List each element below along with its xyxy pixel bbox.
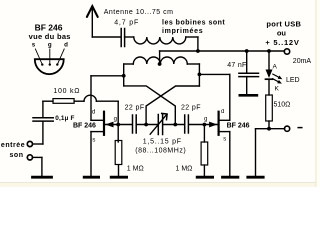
inductor L1 antenna coupling coil (printed) (134, 37, 186, 44)
wire tank top left stub (124, 63, 134, 65)
minus sign label (298, 127, 302, 129)
wire C1 to antenna coil L1 (125, 36, 134, 38)
ground C5 (240, 94, 257, 97)
wire cross-coupling tank left to Q2 gate side (124, 86, 176, 125)
capacitor C4 0,1 uF (33, 118, 53, 121)
svg-text:47 nF: 47 nF (227, 62, 246, 69)
node C5 junction on rail (245, 49, 249, 53)
svg-text:K: K (275, 85, 280, 92)
svg-text:vue du bas: vue du bas (29, 32, 71, 41)
wire rail to C5 (246, 51, 248, 73)
ground R3 (197, 176, 212, 179)
svg-text:100 kΩ: 100 kΩ (53, 88, 80, 95)
wire L2 center tap to rail (159, 51, 161, 64)
svg-text:s: s (32, 41, 36, 48)
BF246 package pin dot d (56, 63, 58, 65)
resistor R4 510 Ohm (266, 95, 273, 121)
capacitor C3 22 pF (185, 115, 189, 133)
transistor Q2 BF246 (209, 112, 230, 135)
LED D1 (266, 70, 273, 80)
node LED junction on rail (267, 49, 271, 53)
ground son (33, 176, 52, 179)
wire cross-coupling tank right to Q1 gate side (146, 86, 199, 125)
resistor R2 1 MOhm (115, 141, 122, 165)
svg-text:0,1µ F: 0,1µ F (55, 115, 74, 122)
svg-text:20mA: 20mA (293, 58, 312, 65)
svg-text:22 pF: 22 pF (125, 104, 145, 111)
wire C2 to CV1 (137, 124, 158, 126)
svg-text:g: g (48, 41, 52, 48)
capacitor C1 4,7 pF (121, 29, 124, 47)
svg-text:ou: ou (277, 28, 287, 37)
svg-text:g: g (204, 117, 207, 123)
svg-text:BF 246: BF 246 (227, 123, 250, 130)
wire son terminal right (33, 156, 42, 158)
svg-text:Antenne 10...75 cm: Antenne 10...75 cm (104, 9, 174, 16)
wire Q1 source vertical (90, 132, 92, 176)
wire Q2 source vertical (229, 132, 231, 176)
svg-text:1 MΩ: 1 MΩ (127, 165, 144, 172)
wire R2 to ground (118, 165, 120, 176)
inductor L2 tank coil (printed) (133, 57, 187, 64)
svg-text:d: d (92, 110, 95, 116)
BF246 package pin leader lines s g d (35, 49, 64, 65)
resistor R1 100 kOhm (53, 99, 74, 104)
svg-text:A: A (273, 63, 278, 70)
wire C5 to ground (246, 77, 248, 94)
node Q1 drain / tank left (122, 74, 126, 78)
wire corner down to supply rail (197, 37, 199, 51)
svg-text:BF 246: BF 246 (73, 123, 96, 130)
terminal son (audio return) (27, 155, 32, 160)
svg-text:(88...108MHz): (88...108MHz) (135, 148, 186, 155)
BF246 package outline bottom view (35, 59, 64, 74)
wire C4 to R1 corner (42, 101, 44, 118)
wire minus node left (256, 128, 270, 130)
svg-text:g: g (114, 117, 117, 123)
node minus junction (267, 127, 271, 131)
svg-text:d: d (221, 109, 224, 115)
wire rail to LED anode (268, 51, 270, 70)
wire tank top right stub (187, 63, 199, 65)
svg-text:22 pF: 22 pF (181, 104, 201, 111)
transistor Q1 BF246 (91, 112, 114, 135)
resistor R3 1 MOhm (201, 142, 208, 165)
svg-text:imprimées: imprimées (162, 28, 203, 35)
svg-text:d: d (64, 41, 68, 48)
wire CV1 to C3 (163, 124, 184, 126)
node CV1 left (144, 123, 148, 127)
wire Q2 drain to tank right (199, 73, 229, 75)
wire down to Q1 gate node (117, 101, 119, 124)
terminal entree (audio input) (27, 141, 32, 146)
ground R2 (111, 176, 126, 179)
wire hop over Q1 drain line (84, 95, 96, 101)
BF246 package pin dot s (41, 63, 43, 65)
wire R3 to ground (203, 165, 205, 176)
LED D1 emission arrows (273, 74, 283, 84)
node antenna feed junction on rail (196, 49, 200, 53)
ground Q1 source (84, 176, 98, 179)
terminal plus supply (port USB / +5..12V) (284, 49, 289, 54)
svg-text:510Ω: 510Ω (274, 102, 291, 109)
variable capacitor CV1 1,5..15 pF (158, 115, 162, 135)
wire Q2 gate node to R3 (203, 125, 205, 143)
wire Q2 drain vertical (229, 74, 231, 120)
capacitor C2 22 pF (133, 115, 137, 133)
wire supply rail V+ (160, 50, 285, 52)
variable capacitor CV1 adjustment arrow (150, 113, 167, 134)
svg-text:son: son (9, 152, 23, 159)
svg-text:1 MΩ: 1 MΩ (176, 165, 193, 172)
wire antenna base to capacitor C1 (92, 36, 120, 38)
svg-text:entrée: entrée (1, 142, 25, 149)
capacitor C5 47 nF decoupling (239, 73, 259, 76)
ground minus node (248, 176, 263, 179)
wire Q1 drain to tank left (91, 75, 124, 77)
svg-text:1,5..15 pF: 1,5..15 pF (143, 139, 182, 146)
wire C3 to Q2 gate (189, 124, 217, 126)
antenna ANT1 (87, 6, 98, 37)
BF246 package pin dot g (49, 63, 51, 65)
wire tank right vertical (198, 64, 200, 86)
wire L1 to corner (186, 36, 198, 38)
wire up to C4 (42, 121, 44, 144)
wire R4 to minus node (268, 121, 270, 129)
node Q2 drain / tank right (198, 73, 202, 77)
wire Q1 gate node to R2 (117, 125, 119, 143)
svg-text:+ 5..12V: + 5..12V (265, 38, 299, 47)
svg-text:s: s (92, 138, 95, 144)
wire Q1 drain vertical (90, 76, 92, 121)
node L2 center tap (158, 62, 162, 66)
wire entree terminal to C4 branch (33, 143, 43, 145)
ground Q2 source (223, 176, 238, 179)
svg-text:s: s (223, 137, 226, 143)
wire son down to ground (41, 157, 43, 175)
wire minus node to minus terminal (269, 128, 284, 130)
node CV1 right (173, 123, 177, 127)
svg-text:4,7 pF: 4,7 pF (114, 19, 139, 26)
svg-text:port USB: port USB (266, 19, 301, 28)
terminal minus (supply return) (285, 126, 290, 131)
wire tank left vertical (123, 64, 125, 86)
wire Q1 gate to C2 (105, 124, 132, 126)
svg-text:les bobines sont: les bobines sont (162, 20, 225, 27)
wire R1 to hop (74, 100, 84, 102)
node Q1 gate bias (116, 123, 120, 127)
node Q2 gate bias (203, 123, 207, 127)
wire C4 to R1 (43, 100, 53, 102)
svg-text:LED: LED (286, 77, 300, 84)
wire minus node down to ground (255, 129, 257, 176)
wire LED cathode to R4 (268, 79, 270, 95)
wire hop to gate node corner (96, 100, 118, 102)
